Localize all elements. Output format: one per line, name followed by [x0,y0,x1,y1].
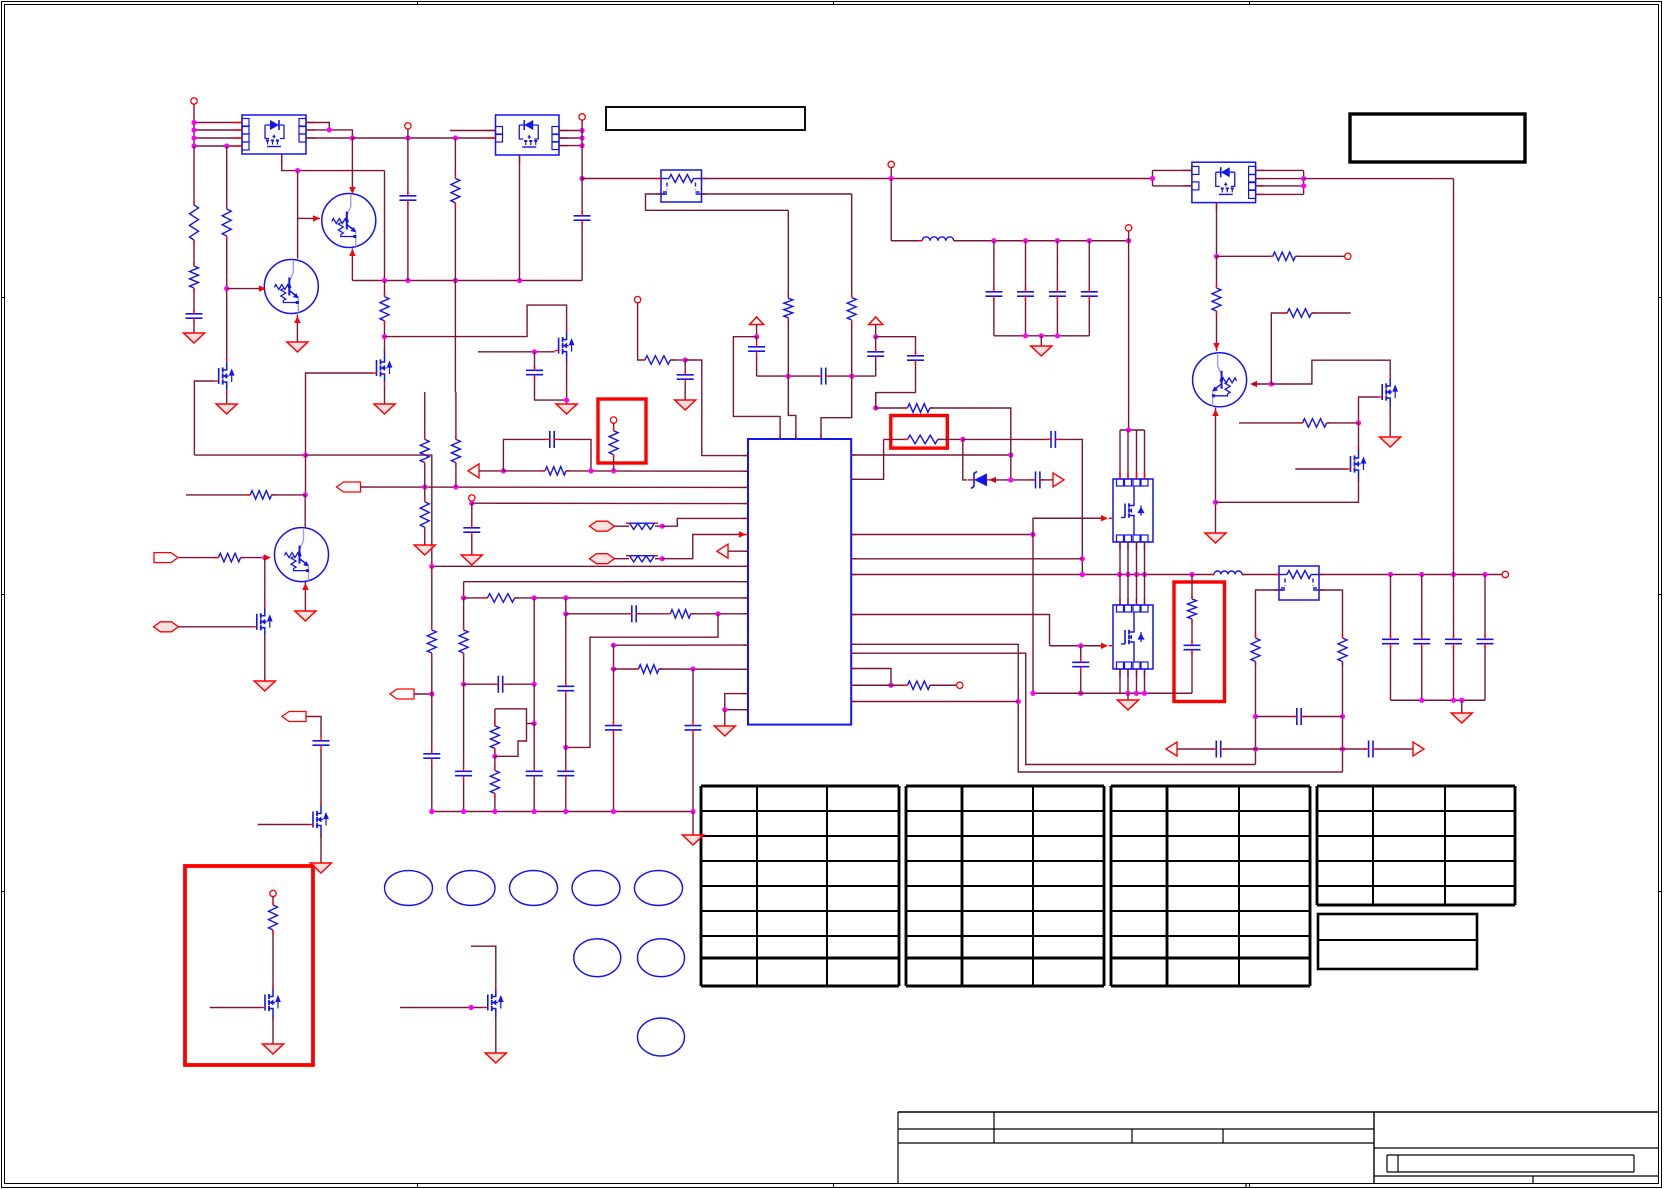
resistor stubs above 487 [424,392,426,439]
resistor R-918 [908,404,930,413]
wire M4 drain [264,558,266,608]
capacitor C-1080 [1072,661,1089,663]
node Q2 base tap [224,286,229,291]
transistor Q1 [322,194,376,248]
wire M9 gate [1295,468,1346,470]
mosfet M4 [257,608,272,636]
highlight box3 chain [1191,575,1193,600]
wire M4 gate [179,626,253,628]
wire M3 gate [478,351,555,353]
wire pkg1 bottom route [282,154,385,171]
port tri P11 [1166,742,1177,756]
wire x582 vertical [581,120,583,214]
capacitor C-1053 [1050,431,1052,448]
resistor R-637 [645,356,671,365]
wire to M8 drain [1271,360,1390,384]
resistor R-424b [420,502,429,528]
wire pin668R [851,669,891,686]
fiducial ellipses row 1 [385,871,683,906]
resistor R-545 [545,467,566,476]
ground [1031,346,1052,356]
label box top middle [606,107,805,130]
wire Q1 emitter to bus [351,249,353,281]
resistor below 487 [424,487,426,502]
capacitor C-875 [867,351,884,353]
power [750,317,764,325]
resistor R-788 [784,298,793,318]
mosfet M9 [1351,450,1366,478]
power [869,317,883,325]
wire Q1 collector [351,138,353,192]
ground [295,611,316,621]
wire pin455R [851,454,1011,456]
capacitor C-1037 [1035,471,1037,488]
resistor R-851 [847,298,856,321]
wire M1 gate [194,381,214,455]
label box top right [1350,114,1525,162]
small table below table 4 [1318,914,1477,969]
ground [556,404,577,414]
ground [675,400,696,410]
package U6 mosfet [1113,605,1153,669]
wire y178 to x1453 [1304,178,1454,180]
port tri P10 [1053,473,1064,487]
wire pin685R resistor [851,684,891,686]
capacitor C-471 [463,527,480,529]
resistor R-920 [908,435,938,444]
fiducial ellipses row 2 [574,939,621,977]
capacitor C-1299 [1296,708,1298,725]
wire x463 vertical [463,598,465,630]
wire x851 to pin3 [821,376,852,439]
ground [414,545,435,555]
capacitor C-194 [186,313,203,315]
capacitor C-875 [875,337,877,350]
package U3 mosfet [1192,162,1256,202]
highlight box 4 [185,866,313,1065]
wire M2 source [384,386,386,404]
ground [461,555,482,565]
resistor ladder x494.9 [494,709,496,726]
wire pkg1 left pins [194,122,242,124]
capacitor C-993t [985,291,1002,293]
inductor L1 [922,237,954,241]
terminal T-582 [579,114,585,120]
ground [683,835,704,845]
terminal T-891 [888,161,894,167]
resistor R-455 [451,178,460,202]
cap between x463,x534 [464,683,497,685]
wire pin598 [463,582,465,598]
resistor R-456 [451,439,460,462]
resistor R-918 y408 [875,393,877,408]
wire P6 top pins [1119,575,1121,606]
wire Q4 emitter [304,582,306,611]
resistor R-431 [427,630,436,653]
wire Q6 base [1250,381,1257,387]
cap y716 [1256,716,1296,718]
node x582 [580,128,585,133]
wire T1 right top long [702,178,1153,180]
wire M2 gate [306,373,373,455]
resistor R-1342 [1338,638,1347,662]
wire M5 source [320,834,322,864]
port arrow P9 [390,689,414,699]
port lens P7 [590,554,615,564]
package U2 dual mosfet [496,115,560,155]
resistor R-1192 [1188,599,1197,619]
wire M3 source [566,360,568,404]
wire gates junction [194,454,305,456]
mosfet M2 [377,354,392,382]
wire cap chain x407.9 [407,138,409,194]
wire pin558R [851,558,1082,560]
diode array D2 [630,556,655,562]
capacitor C-823 [820,368,822,385]
wire Q6 emitter [1215,408,1217,534]
wire pin479R [851,439,883,479]
wire pkg1 right pins [306,123,329,130]
wire P5 gate [851,534,1033,536]
highlight box 1 [598,399,646,463]
terminal T-P1 [191,98,197,104]
port tri P4 [468,464,479,478]
fiducial ellipse row 3 [638,1018,685,1056]
ground [1380,437,1401,447]
wire pkg2 bottom [519,155,521,281]
capacitor C-565b [557,770,574,772]
wire M2 drain from y336 [384,281,386,297]
resistor R-1255 [1251,638,1260,662]
wire M6 source [272,1017,274,1045]
wire R-chain x194 [193,146,195,205]
wire x226 chain [226,146,228,209]
wire Q4 base [179,557,219,559]
table 1 [701,786,899,986]
mosfet M3 [559,332,574,360]
resistor R-424a [420,439,429,462]
ground [254,681,275,691]
mosfet M7 [488,989,503,1017]
wire M5 gate [258,824,310,826]
ground [1118,700,1139,710]
ground [714,726,735,736]
resistor R-613 [609,431,618,455]
wire long vertical x455 [454,138,456,178]
mosfet M6 [265,989,280,1017]
wire Q6 base pullup [1271,313,1287,384]
wire A1 stem [756,325,758,337]
wire x534 vertical [533,598,535,684]
capacitor C-534 [526,369,543,371]
resistor R-494b [490,771,499,794]
resistor R-500 [487,594,514,603]
wire T2 right [1319,574,1502,576]
mosfet M8 [1382,378,1397,406]
wire M6 gate [210,1007,261,1009]
resistor R-1314 [1302,419,1326,428]
zener network [963,439,967,480]
node pkg1-right [327,127,332,132]
capacitor C-685 [677,374,694,376]
wire M7 drain [471,946,496,988]
ground [184,333,205,343]
wire A2 stem [875,325,877,337]
capacitor C-613 [605,725,622,727]
wire T2 bottom pins [1256,590,1280,638]
port lens P6 [590,521,615,531]
wire Q6 collector chain [1216,256,1218,288]
wire Q4 collector [304,495,306,528]
wire pin503 [471,501,473,503]
wire loop E [566,614,718,748]
resistor R-648 [639,665,659,674]
wire M7 gate [400,1007,484,1009]
terminal pin503 [469,495,475,501]
long vertical x1453 [1453,179,1455,575]
wire x431 vertical [431,566,433,630]
port lens P2 [154,622,179,632]
capacitor C-1218 [1215,741,1217,758]
capacitor C-1453 [1445,638,1462,640]
wire RH12 [1239,422,1302,424]
wire ladder jogs [495,709,534,724]
capacitor C-408 [399,195,416,197]
wire M8 source [1389,406,1391,437]
wire P6 gate chain [851,615,1049,646]
wire to choke T1 [582,178,661,180]
wire x1033 vertical [1032,535,1034,694]
table 2 [906,786,1104,986]
wire x613 vertical [613,669,615,722]
wire x851 resistor chain [851,194,853,298]
wire M9 drain [1358,423,1360,450]
ground [1451,713,1472,723]
table 4 [1317,786,1515,905]
capacitor C-1421 [1413,638,1430,640]
wire x788 resistor chain [787,210,789,298]
wire pin653R [851,653,1255,764]
capacitor C-534b [526,770,543,772]
capacitor C-1370 [1368,741,1370,758]
resistor R-226 [222,209,231,236]
port arrow P1 [154,553,178,563]
capacitor C-431 [423,753,440,755]
wire y240 chain [890,179,892,241]
box2 resistor [884,438,908,440]
port tri P8 [717,544,728,558]
wire pin645 [614,644,749,646]
capacitor C-565 [557,685,574,687]
wire pin644R [851,644,1342,772]
capacitor C-552 [549,431,551,448]
caps row x994-1089 [993,241,995,290]
capacitor C-1192 [1184,644,1201,646]
highlight box 2 [891,416,948,449]
wire M7 source [495,1017,497,1054]
terminal T-M6 [270,890,276,896]
wire M8 gate [1359,397,1379,423]
wire P3 left loop [1153,169,1192,171]
resistor R-Q4base [218,553,240,562]
capacitor C-1057t [1049,291,1066,293]
capacitor C-582 [574,215,591,217]
wire T1 right bottom [702,193,852,195]
title block [898,1112,1659,1188]
ground [374,404,395,414]
wire P3 right loop [1256,169,1304,171]
resistor R-680 [670,610,690,619]
table 3 [1111,786,1310,986]
wire M1 source [226,394,228,404]
ground [287,342,308,352]
resistor R-M6 [269,905,278,930]
port arrow P5 [337,482,361,492]
wire A1 loop to pin1 [733,337,780,439]
diode array D1 [630,523,655,529]
transistor Q6 [1193,353,1247,407]
resistor R-194b [190,266,199,288]
wire pin566 [432,565,748,567]
choke T1 [661,170,702,202]
wire T1 loop bottom-left [646,194,789,210]
wire bus y574 [851,574,1214,576]
terminal T-408 [405,123,411,129]
wire x693 vertical [692,669,694,722]
resistor R-384 [380,297,389,321]
capacitor C-634 [631,605,633,622]
wire RH1 [186,494,250,496]
border zone ticks [417,2,419,5]
wire y439 cap chain [963,438,1049,440]
resistor R-494a [490,726,499,749]
wire pin582 [464,581,748,583]
resistor R-463 [459,630,468,653]
wire pin613 [565,598,567,614]
node pkg1-left [191,120,196,125]
ground [263,1044,284,1054]
wire P5 bottom pins [1119,542,1121,575]
capacitor C-756 [756,337,758,343]
wire R-1283 to terminal [1217,255,1273,257]
wire pkg2 right pins [559,130,582,132]
ground [216,404,237,414]
wire M5 top [306,717,321,737]
resistor R-1216 [1212,288,1221,311]
wire y693 [1033,692,1192,694]
capacitor C-915 [907,355,924,357]
package U1 dual mosfet [242,115,306,154]
wire x305 down [305,455,307,495]
wire [193,105,195,147]
capacitor C-463 [455,770,472,772]
highlight box 3 [1174,582,1225,702]
zener D3 [974,473,987,486]
wire y336 [385,305,567,337]
wire Q1 base feed [297,171,299,259]
wire x565 vertical [565,614,567,684]
wire Q2 emitter [296,315,298,343]
wire y138 to pkg2 [352,137,495,139]
resistor R-1283 [1273,252,1296,261]
wire pin455 chain [634,296,640,302]
wire P6 bottom pins [1119,669,1121,693]
node y336 [382,334,387,339]
wire x1128 down to bracket [1128,241,1130,430]
highlight box1 resistor chain [610,417,616,423]
resistor R-494 [250,491,271,500]
resistor R-1299 [1287,309,1311,318]
ground [1205,533,1226,543]
port tri P12 [1413,742,1424,756]
capacitor C-500 [497,676,499,693]
resistor R-194a [190,205,199,240]
wire P3 bottom [1216,203,1218,257]
capacitor C-1025t [1017,291,1034,293]
wire M3 gate cap branch [534,352,536,369]
wire A2 right loop [876,337,916,354]
mosfet M1 [219,362,234,390]
capacitor C-471 [471,503,473,525]
terminal T-1128 [1125,225,1131,231]
capacitor C-1485 [1477,638,1494,640]
wire pin669 [613,645,615,669]
choke T2 [1279,566,1319,600]
wire M4 source [264,636,266,681]
wire Q2 base [227,288,262,290]
resistor R-916 [908,681,931,690]
package U5 mosfet [1113,479,1153,542]
capacitor C-1089t [1081,291,1098,293]
wire bottom bus y811 [432,811,693,813]
capacitor C-321 [313,740,330,742]
transistor Q2 [264,260,318,314]
wire x788 to pin2 [788,376,796,439]
capacitor C-693 [685,725,702,727]
capacitor C-756 [748,346,765,348]
wire gnd stem x693 [692,812,694,836]
wire pin471 RC [479,470,503,472]
IC U10 main controller [748,439,851,725]
mosfet M5 [313,806,328,834]
transistor Q4 [275,528,329,582]
wire bus y280.5 [352,280,582,282]
wire M9 source [1216,478,1359,502]
capacitor C-685 [684,360,686,373]
ground [311,863,332,873]
port arrow P3 [282,712,306,722]
inductor L2 [1214,571,1242,574]
wire pkg2 left top pin [450,130,496,132]
wire M6 chain [272,897,274,905]
wire y455 to x431 [306,455,432,566]
capacitor C-1390 [1382,638,1399,640]
wire pin487 [361,486,749,488]
capacitor C-1080 [1080,646,1082,661]
ground [485,1053,506,1063]
caps row x1390-1485 [1390,575,1392,638]
wire pins 694/710 gnd [725,694,748,710]
wire mid bus y376 [757,375,819,377]
wire pin701R [851,701,1018,703]
bracket above P5 [1120,429,1145,431]
